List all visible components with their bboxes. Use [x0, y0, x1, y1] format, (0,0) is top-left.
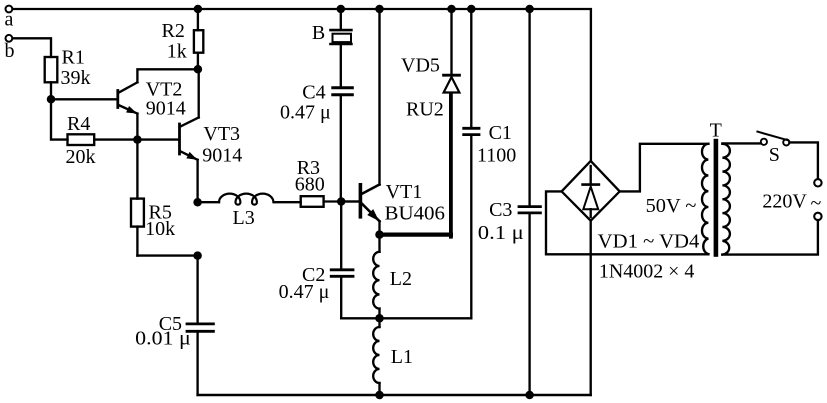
- source 220V terminals: [762, 179, 821, 220]
- svg-text:0.47 μ: 0.47 μ: [279, 281, 330, 303]
- wire R4 to VT3 base: [94, 138, 178, 140]
- node top rail C1: [467, 5, 476, 14]
- svg-text:VT1: VT1: [386, 181, 423, 203]
- transformer T primary winding 220V: [722, 144, 730, 255]
- svg-text:220V: 220V: [762, 191, 807, 213]
- node R2 bottom / collectors: [194, 65, 203, 74]
- wire bridge bottom to rail: [590, 221, 592, 395]
- resistor R5: [131, 140, 198, 256]
- wire junction to VT2 base: [51, 98, 117, 100]
- svg-text:0.1 μ: 0.1 μ: [478, 222, 524, 244]
- svg-text:9014: 9014: [146, 98, 186, 120]
- svg-text:B: B: [312, 22, 325, 44]
- svg-text:T: T: [710, 120, 722, 142]
- resistor R1: [45, 47, 91, 90]
- inductor L1: [373, 318, 413, 395]
- bridge rectifier VD1-VD4: [562, 161, 700, 283]
- wire b to R1: [13, 38, 51, 57]
- transistor VT2: [118, 69, 198, 139]
- transformer T core: [714, 139, 719, 257]
- svg-text:680: 680: [295, 174, 325, 196]
- transistor VT3: [180, 69, 243, 202]
- svg-text:S: S: [769, 144, 780, 166]
- capacitor C4: [280, 45, 352, 201]
- node R4/VT2 emitter/R5 junction: [133, 135, 142, 144]
- terminal b: [5, 35, 12, 42]
- wire bottom rail: [198, 394, 591, 396]
- node top rail R2: [194, 5, 203, 14]
- node L2/L1/C2/C1: [375, 314, 384, 323]
- svg-text:50V ~: 50V ~: [646, 195, 697, 217]
- wire switch to 220V: [789, 142, 818, 179]
- svg-text:~: ~: [811, 193, 822, 215]
- node bottom rail C3: [525, 391, 534, 400]
- node R5/C5: [193, 251, 202, 260]
- inductor L3: [198, 194, 301, 229]
- svg-text:VD1 ~ VD4: VD1 ~ VD4: [598, 231, 700, 253]
- svg-text:a: a: [5, 9, 14, 31]
- node top rail C3: [525, 5, 534, 14]
- svg-text:1100: 1100: [477, 145, 516, 167]
- svg-text:BU406: BU406: [385, 203, 446, 225]
- switch S: [757, 132, 789, 166]
- transformer T secondary winding 50V: [702, 144, 708, 254]
- node R1/R4/VT2 junction: [47, 95, 56, 104]
- svg-text:1N4002 × 4: 1N4002 × 4: [599, 261, 695, 283]
- svg-text:0.47 μ: 0.47 μ: [280, 102, 331, 124]
- svg-text:C4: C4: [302, 82, 325, 104]
- svg-text:R1: R1: [62, 47, 85, 69]
- crystal B: [312, 9, 352, 44]
- capacitor C1: [380, 9, 517, 318]
- capacitor C5: [135, 256, 213, 395]
- svg-text:VT3: VT3: [203, 123, 240, 145]
- capacitor C3: [478, 9, 541, 395]
- svg-text:C3: C3: [489, 199, 512, 221]
- wire top rail: [13, 9, 591, 161]
- svg-text:20k: 20k: [66, 146, 96, 168]
- inductor L2: [373, 235, 412, 319]
- node top rail B: [337, 5, 346, 14]
- node VT1 emitter: [375, 230, 384, 239]
- svg-text:b: b: [5, 40, 15, 62]
- node top rail VT1 collector: [375, 5, 384, 14]
- resistor R4: [66, 113, 96, 168]
- svg-text:R2: R2: [162, 20, 185, 42]
- svg-text:VD5: VD5: [401, 55, 440, 77]
- svg-text:39k: 39k: [61, 67, 91, 89]
- node R3/C4/VT1 base: [337, 197, 346, 206]
- node VT3 emitter/L3: [193, 198, 202, 207]
- resistor R2: [162, 9, 204, 69]
- wire 220V return: [722, 220, 818, 255]
- svg-text:RU2: RU2: [406, 99, 444, 121]
- wire junction down to R4: [51, 99, 68, 139]
- terminal a: [5, 6, 12, 13]
- node top rail VD5: [447, 5, 456, 14]
- svg-text:R4: R4: [67, 113, 90, 135]
- node bottom rail L1: [375, 391, 384, 400]
- svg-text:0.01 μ: 0.01 μ: [135, 328, 191, 350]
- wire bridge left AC: [546, 191, 708, 254]
- wire transformer to switch: [722, 142, 760, 144]
- svg-text:L3: L3: [233, 207, 255, 229]
- resistor R3: [295, 157, 359, 207]
- svg-text:1k: 1k: [167, 41, 187, 63]
- svg-text:L1: L1: [391, 346, 413, 368]
- wire VT1 emitter to VD5 (thick): [380, 93, 451, 237]
- svg-text:10k: 10k: [145, 218, 175, 240]
- diode VD5 RU2: [401, 9, 459, 121]
- wire bridge right AC: [620, 144, 709, 192]
- svg-text:L2: L2: [390, 268, 412, 290]
- wire R1 bottom: [50, 82, 52, 99]
- svg-text:9014: 9014: [202, 145, 242, 167]
- svg-text:C1: C1: [489, 122, 512, 144]
- transistor VT1: [341, 9, 445, 235]
- capacitor C2: [279, 202, 380, 319]
